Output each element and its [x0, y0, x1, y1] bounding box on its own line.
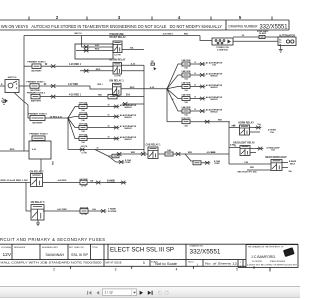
relay REAR WORKLIGHT K7 — [265, 156, 287, 171]
connector cluster bottom row — [79, 145, 88, 154]
connector C8b — [140, 152, 146, 156]
svg-text:4-30 RED 1: 4-30 RED 1 — [69, 94, 82, 97]
svg-text:BATTERY: BATTERY — [31, 100, 42, 103]
wire K1 out — [122, 49, 144, 51]
wire fan branch 2 out — [190, 74, 200, 76]
wire conn to K4 — [146, 153, 148, 155]
svg-text:SYSTEM: SYSTEM — [108, 211, 117, 213]
connector CL2 — [113, 115, 119, 119]
svg-text:CAB FUSE: CAB FUSE — [181, 106, 191, 109]
wire fuse1 out — [39, 85, 51, 87]
svg-text:SHIELD: SHIELD — [124, 128, 132, 130]
wire branch 2 out — [87, 116, 114, 118]
svg-text:FEED: FEED — [125, 162, 131, 164]
svg-text:SHIELD: SHIELD — [124, 117, 132, 119]
wire K5 out — [250, 127, 257, 129]
svg-text:30: 30 — [108, 125, 110, 127]
toolbar background — [0, 287, 300, 298]
svg-text:30 AMP: 30 AMP — [259, 32, 267, 35]
fuse F7 — [165, 149, 173, 156]
svg-text:4-23: 4-23 — [131, 62, 136, 65]
node right fan junction — [166, 88, 168, 90]
svg-text:GM RELAY 2: GM RELAY 2 — [30, 170, 45, 173]
connector C13b — [120, 181, 126, 185]
sheet top border band — [0, 20, 289, 30]
fuse FR2 — [181, 70, 191, 80]
svg-text:RED: RED — [188, 152, 193, 154]
wire ladder branch 3 — [68, 118, 79, 128]
connector C5 — [83, 49, 100, 53]
svg-text:Not to Scale: Not to Scale — [155, 262, 177, 266]
svg-text:4-40 RED: 4-40 RED — [58, 179, 67, 182]
fuse F8 — [193, 161, 201, 165]
svg-text:30: 30 — [172, 99, 174, 101]
svg-text:RED: RED — [95, 49, 100, 51]
wire K7 out 2 — [282, 167, 288, 169]
svg-text:CAB FUSE: CAB FUSE — [181, 70, 191, 73]
page number field — [103, 289, 137, 296]
svg-text:SHIELD: SHIELD — [210, 99, 218, 101]
svg-text:RED: RED — [250, 167, 255, 169]
connector CL4 — [113, 137, 119, 141]
svg-text:WN ON VESYS AUTOCAD FILE STO: WN ON VESYS AUTOCAD FILE STORED IN TEAMC… — [1, 24, 222, 29]
fuse FD1 — [112, 154, 119, 158]
svg-text:30 RED 4-37: 30 RED 4-37 — [50, 115, 63, 118]
wire worklight bottom row — [247, 169, 271, 171]
svg-text:HEADLIGHT RELAY: HEADLIGHT RELAY — [233, 142, 255, 145]
svg-text:HALL COMPLY WITH JOB STANDARD: HALL COMPLY WITH JOB STANDARD NOTE 7000/… — [1, 261, 103, 265]
connector C8 — [116, 152, 122, 156]
svg-text:12 TW: 12 TW — [114, 76, 121, 78]
svg-text:10: 10 — [194, 96, 196, 98]
fuse PRIMARY FUSE 5 — [29, 133, 48, 141]
wire switch drop to fuse F4/F5 — [14, 93, 30, 119]
connector C12 — [257, 147, 263, 151]
svg-text:ROCESTER: ROCESTER — [252, 261, 263, 263]
connector C6 — [83, 69, 101, 73]
relay GLOW RELAY K2 — [110, 58, 126, 77]
svg-text:GM RELAY 3: GM RELAY 3 — [31, 201, 46, 204]
svg-text:GLOW RELAY: GLOW RELAY — [110, 58, 126, 61]
svg-text:PRIMARY FUSE 2: PRIMARY FUSE 2 — [27, 61, 46, 64]
wire branch 1 out — [87, 106, 114, 108]
svg-text:SHIELD: SHIELD — [124, 139, 132, 141]
svg-text:CAB FUSE: CAB FUSE — [181, 94, 191, 97]
svg-text:PUSH TPC: PUSH TPC — [181, 118, 191, 120]
wire into K1 contact — [76, 50, 113, 52]
svg-text:12 TW: 12 TW — [113, 96, 120, 98]
svg-text:CAB RELAY 1: CAB RELAY 1 — [145, 144, 161, 147]
svg-text:5: 5 — [236, 267, 238, 271]
svg-text:SSL III SP: SSL III SP — [71, 252, 88, 257]
wire K8 out — [43, 182, 81, 184]
svg-text:15: 15 — [233, 125, 235, 127]
wire branch 4 out — [87, 138, 114, 140]
zone tick marks — [29, 17, 272, 21]
svg-text:VOLTAGE: VOLTAGE — [1, 246, 12, 249]
wire battery feed vertical — [23, 36, 25, 152]
svg-text:J.C.BAMFORD.: J.C.BAMFORD. — [251, 255, 276, 259]
wire service box to maxi fuse — [233, 36, 259, 38]
wire fan branch 2 — [167, 75, 182, 89]
fuse F6 inline — [108, 94, 117, 99]
svg-text:15A: 15A — [271, 149, 275, 152]
JCB logo — [283, 247, 295, 257]
svg-text:30: 30 — [108, 136, 110, 138]
svg-text:WKLT: WKLT — [290, 163, 296, 165]
svg-text:HORN RELAY: HORN RELAY — [238, 122, 254, 125]
svg-text:12 TW: 12 TW — [81, 153, 87, 155]
fuse PRIMARY FUSE 4 — [28, 112, 47, 124]
svg-text:Sheet: Sheet — [188, 261, 194, 264]
fuse F9 — [79, 179, 88, 188]
wire branch diag to fuse — [185, 154, 193, 161]
wire fan branch 3 — [167, 87, 182, 89]
svg-text:10: 10 — [194, 109, 196, 111]
wire fuse9 out — [87, 182, 96, 184]
svg-text:4-32: 4-32 — [84, 124, 88, 127]
wire into K6 — [229, 147, 240, 149]
svg-text:1 / 12: 1 / 12 — [105, 291, 113, 295]
svg-text:& SERVICE: & SERVICE — [217, 50, 228, 52]
svg-text:3: 3 — [115, 267, 117, 271]
wire left low run — [0, 150, 29, 152]
wire K6 out 2 — [250, 152, 256, 154]
svg-text:FEED: FEED — [214, 163, 220, 165]
connector C2 — [50, 84, 56, 88]
relay CAB RELAY 1 K4 — [145, 144, 161, 159]
fuse F10 — [80, 207, 89, 216]
svg-text:CAB: CAB — [167, 149, 172, 152]
zone numbers 2 3 4 5 — [56, 15, 242, 20]
connector C3 — [50, 95, 56, 99]
svg-text:30A: 30A — [130, 47, 134, 50]
svg-text:No. of Sheets 12: No. of Sheets 12 — [205, 261, 238, 265]
svg-text:SHIELD: SHIELD — [210, 87, 218, 89]
wire fan branch 4 — [167, 89, 182, 99]
prev page button — [97, 291, 100, 295]
wire K3 out to fan node — [121, 88, 167, 90]
svg-text:REAR WORKLIGHT: REAR WORKLIGHT — [265, 156, 287, 159]
svg-text:10: 10 — [194, 73, 196, 75]
wire fan branch 3 out — [190, 86, 200, 88]
svg-text:12V: 12V — [3, 252, 12, 258]
wire K9 stub — [37, 220, 39, 224]
fuse FR6 — [181, 118, 191, 127]
svg-text:GM FUSE: GM FUSE — [79, 179, 88, 181]
fusible link arrow — [151, 61, 157, 70]
svg-text:START RELAY: START RELAY — [109, 36, 126, 39]
wire fuse8 out — [201, 162, 205, 164]
wire mid vertical trunk — [143, 65, 145, 154]
fuse FL2 — [79, 113, 88, 122]
wire fuse2 out — [41, 65, 51, 67]
wire K9 out — [43, 210, 80, 212]
wire fuse1 to GM relay 1 — [56, 86, 112, 89]
connector C11 — [255, 123, 261, 130]
title block frame — [0, 244, 298, 267]
wire battery to switch — [0, 85, 5, 87]
svg-text:CAB FUSE: CAB FUSE — [181, 82, 191, 85]
junction box outline — [29, 141, 51, 159]
svg-text:12 TW: 12 TW — [81, 214, 87, 216]
wire right trunk down — [166, 89, 168, 122]
relay GM RELAY 1 K3 — [109, 79, 124, 98]
connector C10 — [204, 161, 210, 165]
connector C4 — [83, 44, 99, 49]
wire fuse2 to glow relay — [56, 65, 113, 67]
fuse PRIMARY FUSE 1 — [26, 81, 45, 93]
wire K2 out east lower — [122, 70, 145, 72]
svg-text:SAVANNAH: SAVANNAH — [46, 252, 65, 257]
svg-text:BATTERY: BATTERY — [32, 121, 43, 124]
connector C13 — [95, 181, 101, 185]
wire K2 out east — [122, 64, 145, 66]
svg-text:4-41 RED: 4-41 RED — [57, 208, 67, 211]
svg-text:PRIMARY FUSE 4: PRIMARY FUSE 4 — [28, 112, 47, 115]
svg-text:1.5M: 1.5M — [244, 162, 248, 164]
wire ladder branch 1 — [68, 107, 79, 119]
wire fan branch 1 — [167, 64, 182, 89]
wire into K2 lower — [80, 70, 113, 72]
wire K4 out — [158, 153, 165, 155]
rotate cw disabled — [165, 291, 169, 295]
svg-text:REPLACES: REPLACES — [14, 246, 26, 249]
svg-text:DRAWING NO.: DRAWING NO. — [190, 244, 205, 247]
wire K6 out — [250, 148, 258, 150]
wire to relays trunk — [181, 153, 229, 155]
svg-text:SHIELD: SHIELD — [210, 76, 218, 78]
wire fuse10 out — [88, 210, 101, 212]
svg-text:10: 10 — [194, 62, 196, 64]
svg-text:GM FUSE: GM FUSE — [80, 207, 89, 209]
svg-text:4-50 RED 1: 4-50 RED 1 — [163, 32, 174, 35]
svg-text:PRIMARY FUSE 5: PRIMARY FUSE 5 — [29, 133, 48, 136]
first page button — [87, 291, 91, 295]
maxifuse assembly outline — [75, 44, 113, 59]
wire bus into service box — [200, 36, 212, 41]
wire fuse4 to fan node — [45, 117, 68, 119]
wire switch to fuse F1 — [19, 85, 30, 87]
node left fan junction — [67, 117, 69, 119]
battery switch SW1 — [5, 77, 19, 92]
wire feeder to relays — [190, 121, 230, 123]
svg-text:DRAWING NUMBER: DRAWING NUMBER — [229, 24, 258, 28]
svg-text:332/X5551: 332/X5551 — [190, 248, 221, 255]
wire fuse7 out — [173, 153, 176, 155]
wire K8 drop — [25, 183, 27, 212]
fuse FR1 — [181, 59, 191, 69]
svg-text:RED: RED — [10, 149, 15, 151]
svg-text:30: 30 — [108, 104, 110, 106]
wire ladder bottom row — [68, 149, 144, 151]
wire fan trunk down — [67, 118, 69, 150]
fold mark — [269, 267, 271, 271]
svg-text:15: 15 — [234, 145, 236, 147]
connector C9 — [175, 152, 181, 156]
wire ladder branch 4 — [68, 118, 79, 139]
svg-text:SHIELD: SHIELD — [124, 107, 132, 109]
alternator G1 — [278, 34, 296, 46]
svg-text:4-27 RED: 4-27 RED — [68, 83, 78, 86]
svg-text:M/F AT ISSUE: M/F AT ISSUE — [106, 262, 122, 265]
wire into K4 — [122, 153, 141, 155]
connector C7 — [122, 102, 128, 106]
ground K9 — [36, 223, 40, 226]
band divider — [225, 20, 227, 30]
fuse FL4 — [79, 135, 88, 144]
connector box TOWER CON — [212, 38, 233, 52]
fuse FL3 — [79, 124, 88, 133]
wire feeder row east — [167, 121, 182, 123]
next page button — [140, 291, 143, 295]
fuse PRIMARY FUSE 3 — [27, 91, 46, 102]
svg-text:RED: RED — [184, 33, 189, 35]
wire to B hand system — [101, 182, 121, 184]
svg-text:332/X5551: 332/X5551 — [260, 23, 288, 30]
wire fuse6 to vertical — [117, 96, 144, 98]
wire diag drop 1 — [95, 150, 112, 157]
wire K5 out 2 — [250, 131, 261, 133]
svg-text:5: 5 — [143, 261, 145, 265]
svg-text:RED: RED — [130, 87, 135, 89]
wire into K5 — [229, 127, 240, 129]
svg-text:RED 1: RED 1 — [97, 84, 102, 86]
wire service box to alternator D+ — [233, 40, 278, 42]
svg-text:12 TW: 12 TW — [81, 186, 87, 188]
svg-text:RED PUSH TPC 30A: RED PUSH TPC 30A — [237, 170, 257, 173]
connector CR1 — [199, 62, 205, 66]
wire into K7 — [229, 163, 271, 165]
wire main 30 RED bus — [24, 35, 200, 37]
svg-text:4-50: 4-50 — [211, 151, 215, 154]
svg-text:4-31: 4-31 — [84, 113, 88, 116]
fuse FR3 — [181, 82, 191, 92]
svg-text:RED: RED — [53, 160, 55, 165]
svg-text:10: 10 — [194, 84, 196, 86]
connector CR3 — [199, 85, 205, 89]
svg-text:12 TW: 12 TW — [114, 54, 121, 56]
wire maxi fuse to alternator — [265, 36, 278, 38]
svg-text:4-33: 4-33 — [84, 135, 88, 138]
connector CR4 — [199, 97, 205, 101]
connector C14 — [100, 209, 106, 213]
svg-text:BATTERY: BATTERY — [31, 69, 42, 72]
connector CL1 — [113, 105, 119, 109]
relay HORN RELAY K5 — [238, 122, 254, 135]
svg-text:4-23 RED 1: 4-23 RED 1 — [69, 63, 82, 66]
wire right feeder vertical — [228, 122, 230, 164]
wire fan branch 5 out — [190, 110, 200, 112]
svg-text:10A: 10A — [212, 64, 216, 67]
wire alternator ground stub — [280, 46, 282, 50]
wire stub y104 — [128, 103, 144, 105]
connector CD2 — [118, 160, 124, 164]
connector CR6 — [204, 120, 210, 124]
wire K7 out — [282, 162, 288, 164]
svg-text:4-40: 4-40 — [32, 148, 36, 151]
svg-text:GM C/A: GM C/A — [81, 145, 88, 148]
svg-text:30A: 30A — [126, 93, 131, 96]
connector CR2 — [199, 73, 205, 77]
ground alternator — [279, 50, 283, 53]
svg-text:15A: 15A — [270, 131, 274, 134]
connector CL3 — [113, 126, 119, 130]
svg-text:NOT USED ON: NOT USED ON — [69, 247, 84, 249]
relay MAXIFUSE START RELAY K1 — [109, 33, 126, 56]
svg-text:ELECT SCH SSL III SP: ELECT SCH SSL III SP — [110, 246, 174, 253]
wire ladder branch 2 — [68, 117, 79, 119]
fuse MAXI 30 AMP — [257, 30, 269, 39]
wire fuse3 out — [40, 96, 51, 98]
svg-text:4-30: 4-30 — [84, 103, 88, 106]
last page button — [148, 291, 153, 295]
svg-text:BUSINESS UNIT: BUSINESS UNIT — [42, 247, 59, 249]
wire into K9 — [26, 210, 31, 212]
svg-text:GM RELAY 1: GM RELAY 1 — [109, 79, 124, 82]
svg-text:BAT 30: BAT 30 — [74, 32, 82, 35]
fuse FR5 — [181, 106, 191, 116]
wire branch 3 out — [87, 127, 114, 129]
svg-text:SHIELD: SHIELD — [210, 112, 218, 114]
connector CR5 — [199, 109, 205, 113]
svg-text:RED 30 4-40 RED 1.5M: RED 30 4-40 RED 1.5M — [1, 179, 29, 182]
svg-text:CAB FUSE: CAB FUSE — [181, 59, 191, 62]
wire fuse3 east run — [56, 96, 108, 98]
wire diag drop 2 — [108, 156, 119, 162]
svg-text:30: 30 — [108, 114, 110, 116]
svg-text:SYSTEM: SYSTEM — [107, 182, 116, 184]
wire drop to GM relay 2 — [40, 159, 42, 174]
svg-text:STAFFORDSHIRE: STAFFORDSHIRE — [270, 260, 286, 263]
svg-text:TITLE: TITLE — [92, 247, 98, 249]
JCB property box — [246, 245, 298, 268]
svg-text:RCUIT AND PRIMARY & SECONDARY: RCUIT AND PRIMARY & SECONDARY FUSES — [0, 237, 105, 242]
relay HEADLIGHT RELAY K6 — [233, 142, 255, 156]
svg-text:30: 30 — [97, 147, 99, 149]
svg-text:RED: RED — [218, 120, 223, 122]
fuse PRIMARY FUSE 2 — [27, 61, 46, 73]
fuse FR4 — [181, 94, 191, 104]
relay GM RELAY 2 K8 — [30, 170, 45, 186]
fuse FL1 — [79, 103, 88, 112]
wire fan branch 4 out — [190, 98, 200, 100]
svg-text:SWITCH: SWITCH — [8, 77, 17, 79]
svg-text:4: 4 — [176, 267, 178, 271]
bottom zone ticks — [71, 266, 255, 269]
wire fan branch 1 out — [190, 63, 200, 65]
svg-text:4-30: 4-30 — [150, 86, 155, 89]
svg-text:RED: RED — [96, 69, 101, 71]
relay GM RELAY 3 K9 — [31, 201, 46, 220]
ground battery marks — [1, 98, 8, 104]
svg-text:& MUST NOT BE COPIED OR REPROD: & MUST NOT BE COPIED OR REPRODUCED WIT — [247, 264, 298, 266]
svg-text:RED: RED — [131, 152, 136, 154]
wire bus to fuse2 — [24, 65, 32, 67]
wire into K8 — [0, 182, 31, 184]
svg-text:2: 2 — [53, 267, 55, 271]
wire into K1 coil — [82, 36, 113, 48]
svg-text:PRIMARY FUSE 1: PRIMARY FUSE 1 — [26, 81, 45, 84]
svg-text:40A: 40A — [95, 44, 99, 47]
wire fan branch 5 — [167, 89, 182, 111]
svg-text:THE DRAWING IS THE PROPERTY OF: THE DRAWING IS THE PROPERTY OF — [248, 245, 284, 248]
rotate ccw disabled — [158, 291, 162, 295]
connector C1 — [50, 64, 56, 68]
